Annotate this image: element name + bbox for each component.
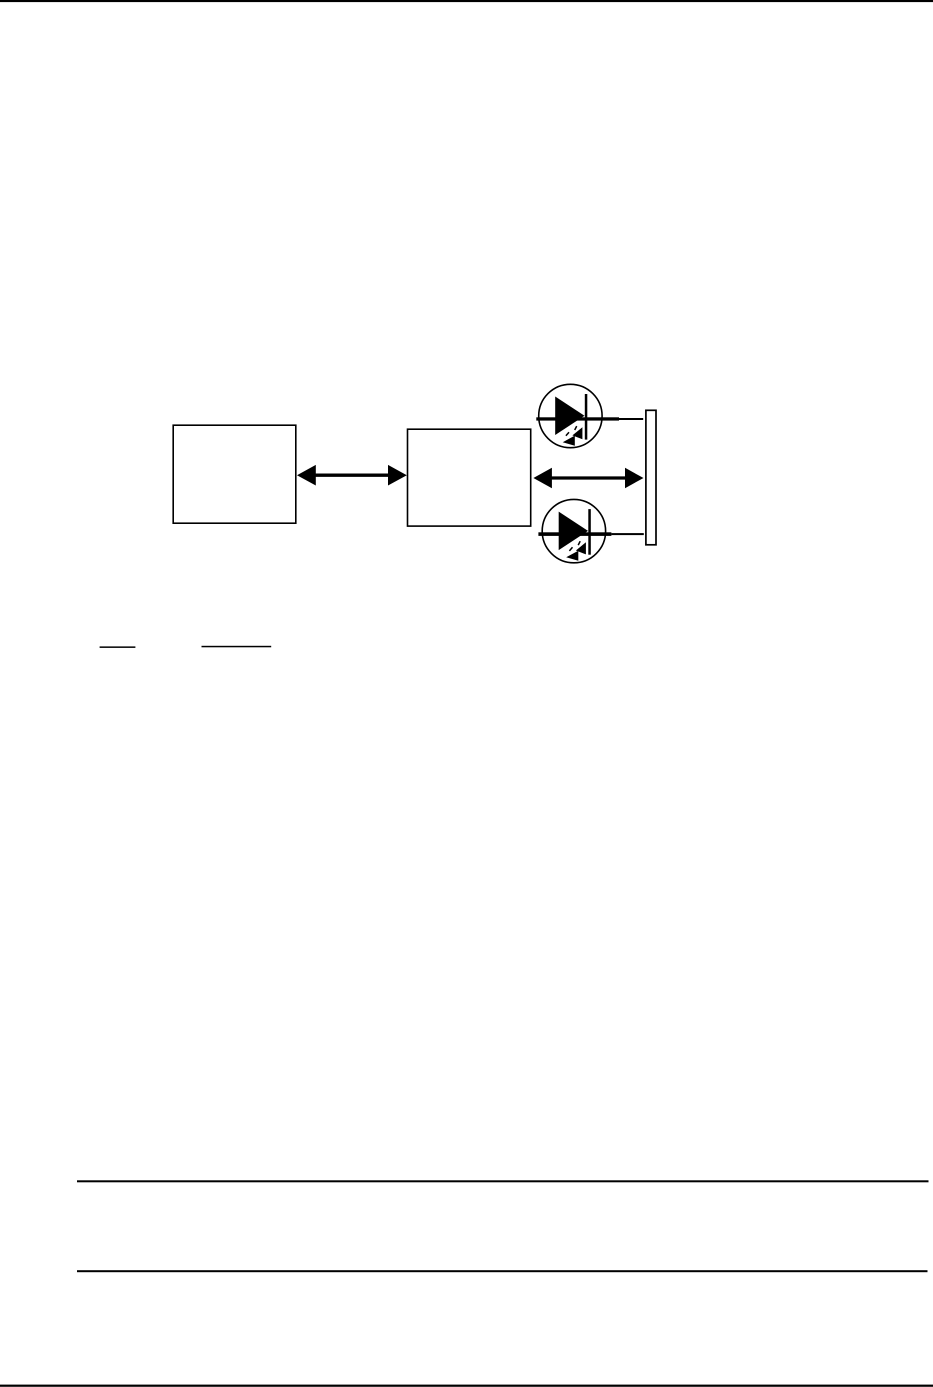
bottom page rule: [0, 1385, 933, 1387]
block: host box: [173, 425, 296, 523]
LED D1 (top transceiver diode): [539, 384, 602, 447]
block: controller box: [408, 429, 531, 526]
wire: bidirectional arrow host-controller: [297, 465, 407, 486]
wire: bidirectional arrow controller-transceiver: [533, 468, 643, 488]
D1 cathode bar: [585, 394, 588, 440]
footer rule 1: [77, 1180, 929, 1182]
D1 anode triangle: [555, 397, 584, 436]
D1 emission arrow a (head): [572, 427, 582, 439]
underline: blank word 1: [100, 646, 136, 648]
transceiver window bar: [646, 410, 656, 545]
footer rule 2: [77, 1270, 928, 1272]
underline: blank word 2: [202, 646, 272, 648]
top page rule: [0, 0, 933, 2]
wire: D2 lead to window bar: [538, 532, 643, 536]
D1 emission arrow b (dash): [566, 432, 569, 436]
D1 emission arrow b (head): [563, 436, 575, 446]
LED D2 (bottom transceiver diode): [542, 499, 605, 562]
wire: D1 lead to window bar: [536, 417, 643, 420]
D1 emission arrow a (dash): [575, 426, 577, 430]
D1 circle outline: [539, 384, 602, 447]
